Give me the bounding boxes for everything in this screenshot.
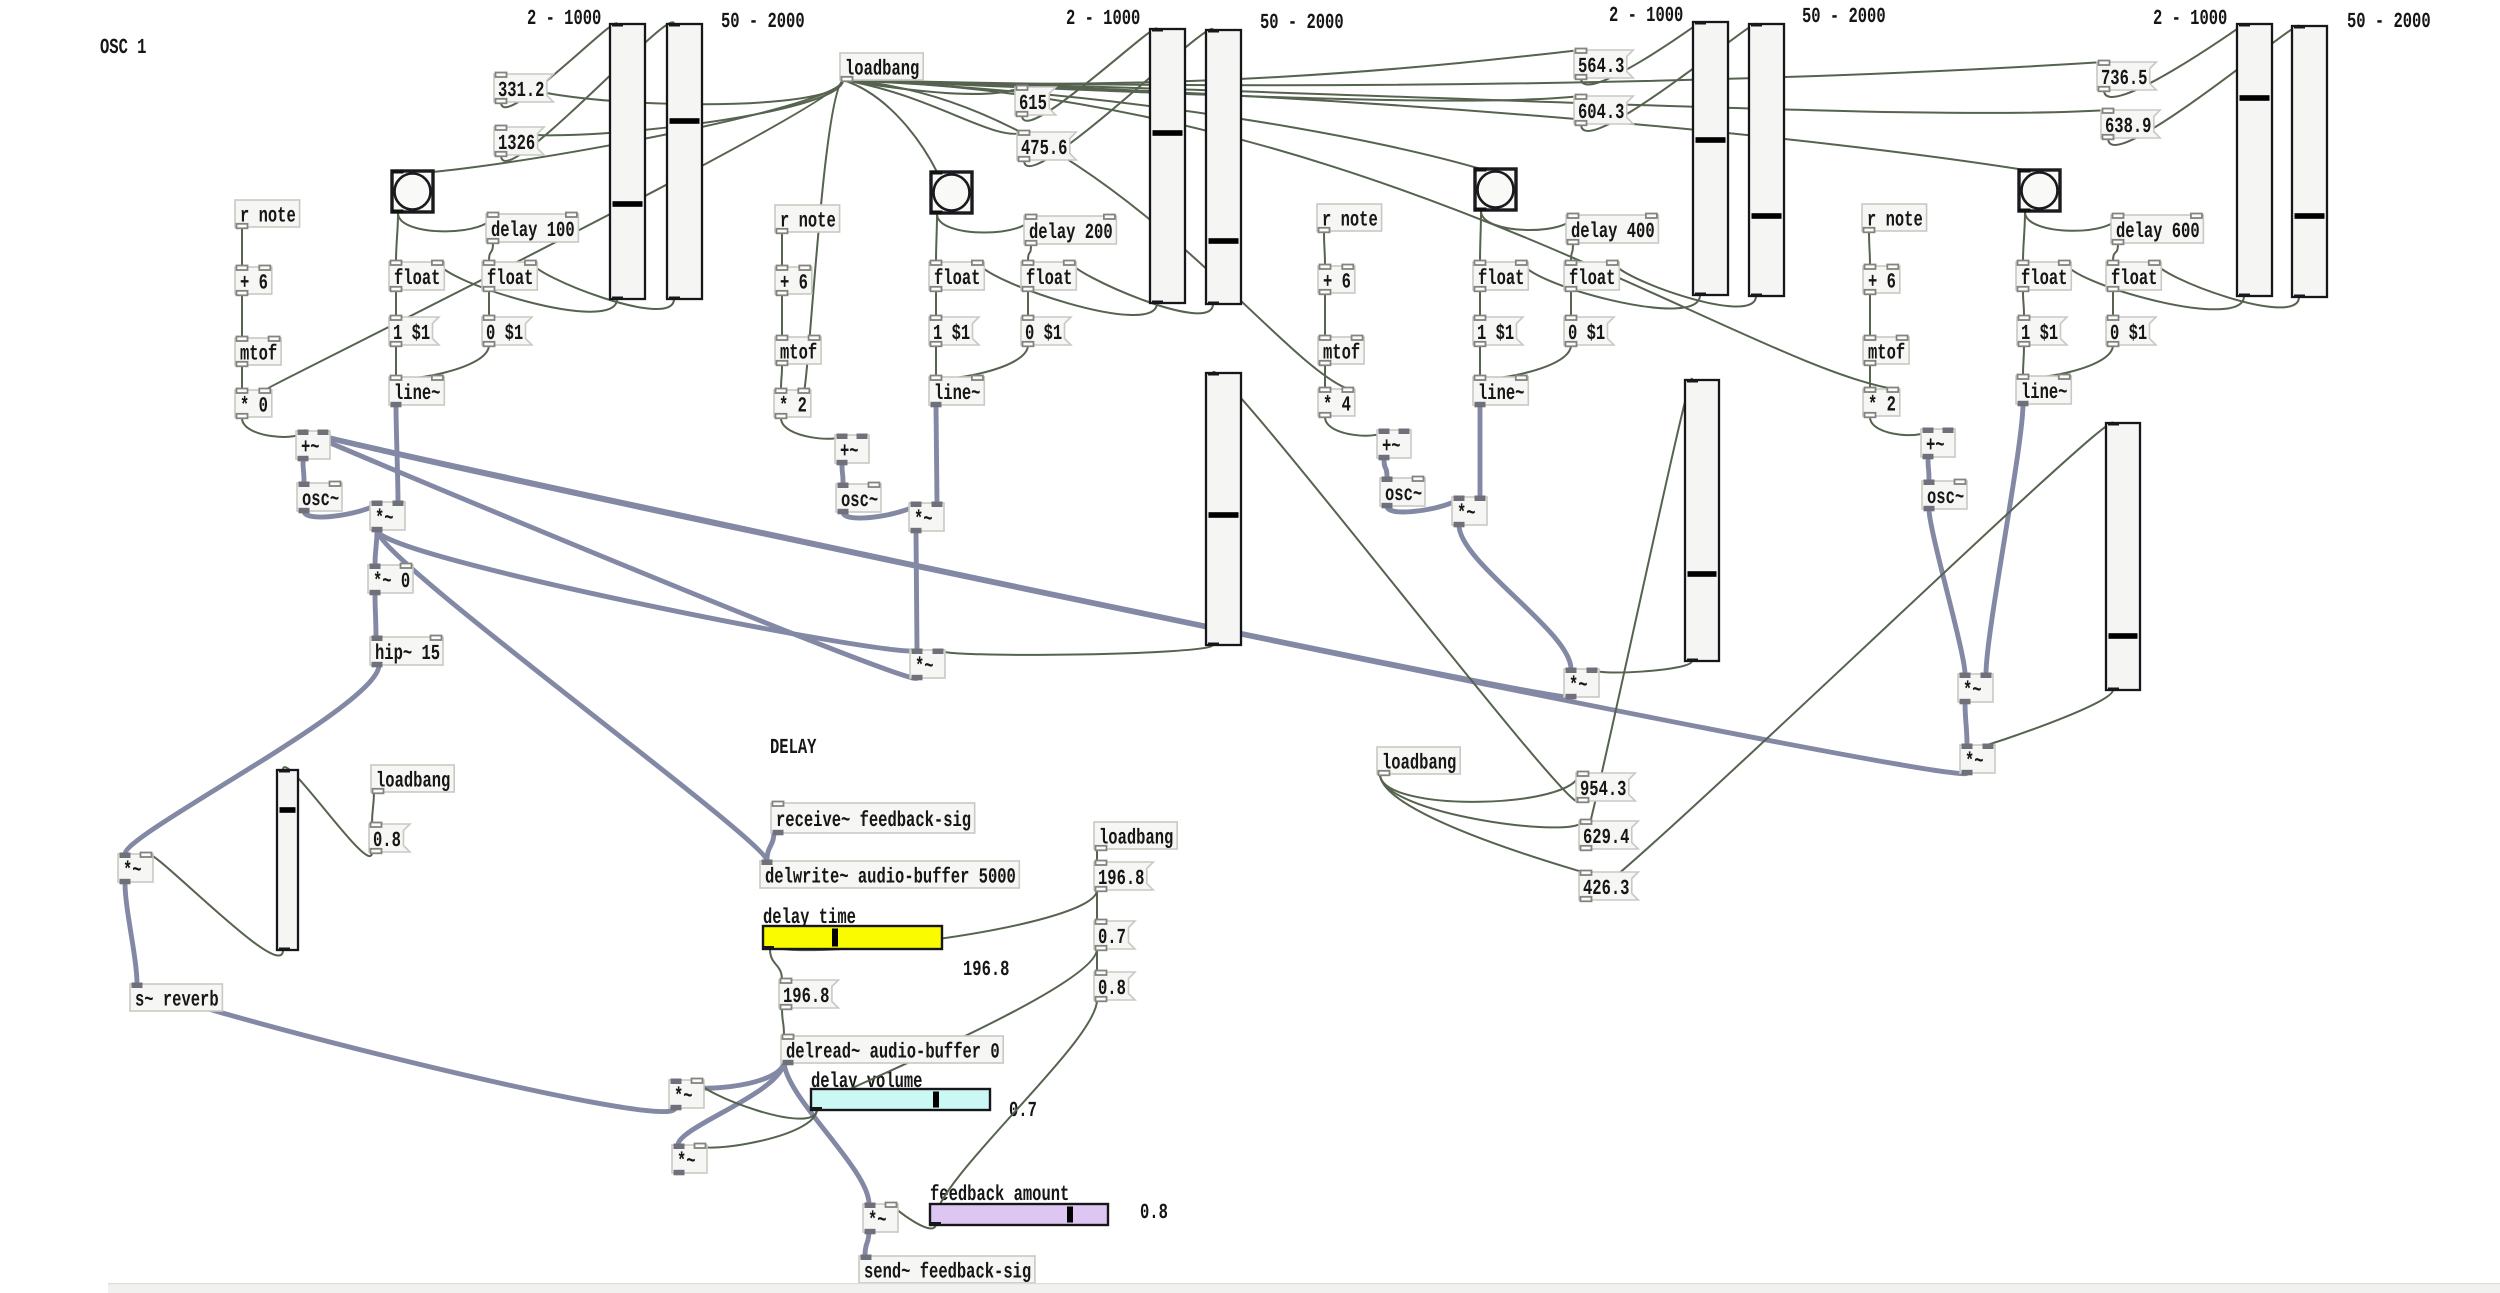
wire loadbang2 -> msg 629.4 <box>1380 774 1582 827</box>
comment 50 - 2000 (osc4) <box>2347 10 2431 34</box>
svg-text:delay 400: delay 400 <box>1571 220 1655 244</box>
wire msg 954.3 -> amp slider osc2 <box>1213 372 1579 802</box>
svg-text:0 $1: 0 $1 <box>1025 322 1062 346</box>
vslider volume (osc1) <box>277 770 298 951</box>
wire 736.5 -> slider1 (osc4) <box>2104 24 2244 97</box>
vslider amplitude (osc3) <box>1685 380 1719 662</box>
svg-text:0.8: 0.8 <box>1098 977 1126 1001</box>
wire loadbang -> msg 564.3 <box>843 50 1581 84</box>
object +~ (osc2) <box>835 434 869 466</box>
wire float -> 0 $1 (osc1) <box>488 290 490 317</box>
svg-text:0 $1: 0 $1 <box>2110 322 2147 346</box>
message 1 $1 (osc2) <box>929 316 979 347</box>
wire loadbang3 -> msg 0.8 (osc1) <box>372 791 374 824</box>
svg-text:1 $1: 1 $1 <box>1477 322 1514 346</box>
wire delread~ -> *~ C <box>784 1061 869 1204</box>
comment OSC 1 <box>100 36 146 60</box>
wire bang -> delay 600 (osc4) <box>2025 212 2118 231</box>
message 0.8 (delay right) <box>1094 971 1135 1002</box>
wire hip~ 15 -> *~ final <box>125 665 379 854</box>
object osc~ (osc4) <box>1922 480 1967 512</box>
message 426.3 <box>1579 871 1638 902</box>
object * 0 (osc1) <box>235 389 272 419</box>
object + 6 (osc4) <box>1863 265 1900 295</box>
message 638.9 (osc4) <box>2101 109 2160 140</box>
object *~ B (delay aux) <box>672 1144 707 1176</box>
svg-text:*~: *~ <box>375 507 394 531</box>
object * 2 (osc4) <box>1863 388 1900 418</box>
comment 50 - 2000 (osc2) <box>1260 11 1344 35</box>
svg-text:+~: +~ <box>1382 435 1401 459</box>
wire loadbang2 -> msg 426.3 <box>1380 774 1582 872</box>
svg-text:delay 200: delay 200 <box>1029 221 1113 245</box>
wire msg 196.8 -> msg 0.7 chain <box>1096 890 1098 921</box>
wire 1326 -> slider2 (osc1) <box>501 22 674 161</box>
wire mtof -> * 2 (osc2) <box>781 365 782 390</box>
object float right (osc1) <box>482 261 537 292</box>
message 0.8 (osc1 volume) <box>369 823 410 854</box>
svg-text:1326: 1326 <box>498 132 535 156</box>
wire r note -> + 6 (osc2) <box>781 233 783 267</box>
object line~ (osc3) <box>1473 376 1528 408</box>
svg-text:line~: line~ <box>394 382 440 406</box>
vslider amplitude (osc2) <box>1206 373 1241 646</box>
wire *~ osc3 -> *~2 osc3 <box>1459 525 1571 669</box>
message 0 $1 (osc1) <box>482 316 532 347</box>
object osc~ (osc2) <box>836 483 881 515</box>
svg-text:0 $1: 0 $1 <box>486 322 523 346</box>
wire delread~ -> *~ A <box>675 1061 784 1088</box>
wire msg 196.8 left -> delread~ <box>782 1008 784 1036</box>
object r note (osc1) <box>235 200 300 229</box>
svg-text:2 - 1000: 2 - 1000 <box>1609 4 1683 28</box>
message 604.3 (osc3) <box>1574 95 1633 126</box>
svg-text:1 $1: 1 $1 <box>2021 322 2058 346</box>
svg-text:send~ feedback-sig: send~ feedback-sig <box>864 1261 1031 1285</box>
wire osc~ -> *~ (osc3) <box>1387 497 1459 512</box>
svg-text:*~: *~ <box>868 1209 887 1233</box>
comment 2 - 1000 (osc2) <box>1066 7 1140 31</box>
wire 331.2 -> slider1 (osc1) <box>501 23 617 107</box>
vslider freq 2-1000 (osc1) <box>610 24 645 300</box>
wire * 2 -> +~ (osc4) <box>1870 417 1928 435</box>
object +~ (osc4) <box>1921 428 1955 460</box>
wire volume slider -> *~ final right <box>146 853 283 956</box>
svg-text:r note: r note <box>780 210 836 234</box>
object *~ second (osc4) <box>1960 744 1995 776</box>
comment 2 - 1000 (osc1) <box>527 7 601 31</box>
wire 475.6 -> slider2 (osc2) <box>1024 29 1213 166</box>
svg-text:0.7: 0.7 <box>1098 926 1126 950</box>
wire 615 -> slider1 (osc2) <box>1022 28 1157 120</box>
wire bang -> float left (osc1) <box>396 213 398 262</box>
wire bang -> delay 200 (osc2) <box>937 214 1031 233</box>
object *~ final (osc1) <box>118 853 153 885</box>
svg-text:r note: r note <box>1322 209 1378 233</box>
svg-text:delread~ audio-buffer 0: delread~ audio-buffer 0 <box>786 1041 1000 1065</box>
message 475.6 (osc2) <box>1017 131 1076 162</box>
svg-text:OSC 1: OSC 1 <box>100 36 146 60</box>
vslider cutoff 50-2000 (osc3) <box>1749 24 1784 297</box>
wire delay volume slider -> *~ A right <box>697 1080 817 1119</box>
message 0 $1 (osc2) <box>1021 316 1071 347</box>
object + 6 (osc1) <box>235 266 272 296</box>
svg-text:629.4: 629.4 <box>1583 826 1630 850</box>
object osc~ (osc1) <box>297 482 342 514</box>
svg-text:osc~: osc~ <box>302 488 339 512</box>
svg-text:loadbang: loadbang <box>376 770 450 794</box>
object *~ second (osc3) <box>1564 668 1599 700</box>
wire +~ -> osc~ (osc3) <box>1384 458 1387 478</box>
object + 6 (osc3) <box>1318 265 1355 295</box>
wire slider2 -> float right box right inlet (osc2) <box>1071 262 1214 313</box>
wire 0 $1 -> line~ (osc4) <box>2023 345 2113 378</box>
svg-text:331.2: 331.2 <box>498 79 544 103</box>
message 629.4 <box>1579 820 1638 851</box>
wire *~ 0 -> hip~ 15 <box>375 593 376 637</box>
wire * 2 -> +~ (osc2) <box>781 418 842 439</box>
svg-text:*~: *~ <box>674 1085 693 1109</box>
svg-text:426.3: 426.3 <box>1583 877 1629 901</box>
wire *~ osc4 -> *~2 osc4 <box>1965 702 1967 745</box>
loadbang (osc1 volume) <box>371 765 454 794</box>
object float left (osc1) <box>389 261 444 292</box>
hslider delay volume (cyan) <box>810 1089 990 1111</box>
message 331.2 (osc1) <box>494 73 553 104</box>
svg-text:float: float <box>2021 267 2067 291</box>
wire slider2 -> float right box right inlet (osc1) <box>532 262 675 309</box>
svg-text:*~: *~ <box>677 1150 696 1174</box>
svg-text:736.5: 736.5 <box>2101 67 2147 91</box>
svg-text:+~: +~ <box>301 436 320 460</box>
object hip~ 15 (osc1) <box>370 636 443 668</box>
message 0 $1 (osc4) <box>2106 316 2156 347</box>
object delay 200 (osc2) <box>1024 215 1116 246</box>
message 1 $1 (osc1) <box>389 316 439 347</box>
svg-text:mtof: mtof <box>1868 342 1905 366</box>
svg-text:* 4: * 4 <box>1323 394 1351 418</box>
svg-text:*~: *~ <box>914 508 933 532</box>
wire msg 426.3 -> amp slider osc4 <box>1582 423 2113 901</box>
object osc~ (osc3) <box>1380 477 1425 509</box>
svg-text:* 2: * 2 <box>779 395 807 419</box>
svg-text:mtof: mtof <box>240 343 277 367</box>
message 1 $1 (osc4) <box>2017 316 2067 347</box>
wire bang -> float left (osc3) <box>1480 211 1481 262</box>
object float left (osc4) <box>2016 261 2071 292</box>
bang (osc4) <box>2019 169 2061 213</box>
scrollbar strip (bottom) <box>108 1283 2500 1293</box>
object delay 400 (osc3) <box>1566 214 1658 245</box>
svg-text:+~: +~ <box>1926 434 1945 458</box>
wire 1 $1 -> line~ (osc1) <box>395 345 397 377</box>
wire +~ -> osc~ (osc2) <box>842 463 843 484</box>
svg-text:2 - 1000: 2 - 1000 <box>2153 7 2227 31</box>
svg-text:line~: line~ <box>934 382 980 406</box>
object *~ (osc1) <box>370 501 405 533</box>
svg-text:float: float <box>1569 267 1615 291</box>
wire loadbang -> msg 638.9 <box>843 80 2108 113</box>
svg-text:loadbang: loadbang <box>1382 752 1456 776</box>
svg-text:615: 615 <box>1019 92 1047 116</box>
svg-text:hip~ 15: hip~ 15 <box>375 642 440 666</box>
message 1 $1 (osc3) <box>1473 316 1523 347</box>
svg-text:loadbang: loadbang <box>1099 827 1173 851</box>
wire bang -> delay 100 (osc1) <box>398 213 493 231</box>
wire loadbang -> msg 736.5 <box>843 62 2104 85</box>
svg-text:+ 6: + 6 <box>240 272 268 296</box>
hslider delay time (yellow) <box>762 926 942 950</box>
message 954.3 <box>1576 772 1635 803</box>
svg-text:*~: *~ <box>123 859 142 883</box>
wire delay volume slider -> *~ B right <box>700 1109 817 1148</box>
svg-text:*~: *~ <box>1457 502 1476 526</box>
wire bang -> float left (osc4) <box>2023 212 2025 262</box>
wire loadbang -> bang (osc3) <box>843 80 1481 169</box>
svg-text:float: float <box>1478 267 1524 291</box>
svg-text:float: float <box>934 267 980 291</box>
message 736.5 (osc4) <box>2097 61 2156 92</box>
svg-text:196.8: 196.8 <box>1098 867 1144 891</box>
object + 6 (osc2) <box>775 266 812 296</box>
svg-text:float: float <box>394 267 440 291</box>
wire +~ -> osc~ (osc1) <box>303 459 304 483</box>
svg-text:line~: line~ <box>1478 382 1524 406</box>
wire loadbang -> msg 475.6 <box>843 80 1024 134</box>
svg-text:0.8: 0.8 <box>1140 1201 1168 1225</box>
svg-text:475.6: 475.6 <box>1021 137 1067 161</box>
loadbang (top) <box>840 53 923 82</box>
wire float -> 0 $1 (osc3) <box>1570 290 1572 317</box>
wire 1 $1 -> line~ (osc4) <box>2023 345 2024 376</box>
svg-text:954.3: 954.3 <box>1580 778 1626 802</box>
wire mtof -> * 4 (osc3) <box>1324 365 1326 389</box>
wire r note -> + 6 (osc4) <box>1869 232 1870 266</box>
object r note (osc4) <box>1862 204 1927 233</box>
svg-text:delwrite~ audio-buffer 5000: delwrite~ audio-buffer 5000 <box>765 866 1016 890</box>
object *~ second (osc2) <box>910 649 945 681</box>
svg-text:receive~ feedback-sig: receive~ feedback-sig <box>776 809 971 833</box>
object +~ (osc1) <box>296 430 330 462</box>
svg-text:+~: +~ <box>840 440 859 464</box>
wire r note -> + 6 (osc3) <box>1324 232 1325 266</box>
vslider freq 2-1000 (osc4) <box>2237 24 2272 297</box>
svg-text:line~: line~ <box>2021 381 2067 405</box>
wire amp slider osc3 -> *~2 right (osc3) <box>1592 661 1692 672</box>
wire line~ -> *~ right (osc4) <box>1986 404 2023 674</box>
loadbang (delay) <box>1094 822 1177 851</box>
vslider freq 2-1000 (osc3) <box>1693 22 1728 296</box>
wire *~2 osc4 -> +~ osc1 <box>303 431 1967 774</box>
object r note (osc2) <box>775 205 840 234</box>
wire float -> 1 $1 (osc3) <box>1479 290 1481 317</box>
object line~ (osc1) <box>389 376 444 408</box>
svg-text:2 - 1000: 2 - 1000 <box>1066 7 1140 31</box>
wire loadbang -> bang (osc2) <box>843 80 937 172</box>
wire *~ A -> s~ reverb <box>137 984 675 1112</box>
object *~ (osc4) <box>1958 673 1993 705</box>
wire delay 200 -> float right (osc2) <box>1028 244 1031 262</box>
comment 50 - 2000 (osc3) <box>1802 5 1886 29</box>
wire delay time slider -> msg 196.8 left <box>770 949 782 980</box>
svg-text:*~ 0: *~ 0 <box>373 570 410 594</box>
comment 196.8 <box>963 958 1009 982</box>
object * 4 (osc3) <box>1318 388 1355 418</box>
svg-text:s~ reverb: s~ reverb <box>135 989 219 1013</box>
wire bang -> delay 400 (osc3) <box>1481 211 1573 230</box>
wire loadbang2 -> msg 954.3 <box>1380 773 1579 802</box>
wire delay 100 -> float right (osc1) <box>489 242 493 262</box>
svg-text:r note: r note <box>240 205 296 229</box>
wire *~ osc1 -> delwrite~ <box>377 530 767 861</box>
object r note (osc3) <box>1317 204 1382 233</box>
wire slider1 -> float left box right inlet (osc2) <box>979 262 1158 315</box>
wire msg 196.8 -> delay time slider <box>768 890 1097 950</box>
wire loadbang -> msg 604.3 <box>843 80 1581 101</box>
svg-text:+ 6: + 6 <box>1868 271 1896 295</box>
bang (osc1) <box>392 170 434 214</box>
wire bang -> float left (osc2) <box>936 214 937 262</box>
wire mtof -> * 2 (osc4) <box>1869 365 1871 389</box>
vslider cutoff 50-2000 (osc4) <box>2292 26 2327 298</box>
wire loadbang -> * 2 right inlet (osc4) <box>843 80 1893 389</box>
comment delay time <box>763 906 856 930</box>
svg-text:mtof: mtof <box>1323 342 1360 366</box>
svg-text:196.8: 196.8 <box>963 958 1009 982</box>
wire msg 0.8 -> feedback amount slider <box>934 1000 1097 1222</box>
wire msg 0.7 -> msg 0.8 chain <box>1096 949 1098 972</box>
object mtof (osc2) <box>775 336 821 366</box>
wire feedback slider -> *~ C right <box>891 1204 936 1228</box>
svg-text:0 $1: 0 $1 <box>1568 322 1605 346</box>
wire slider1 -> float left box right inlet (osc4) <box>2066 262 2245 309</box>
svg-text:DELAY: DELAY <box>770 736 817 760</box>
wire + 6 -> mtof (osc4) <box>1869 294 1871 337</box>
svg-text:50 - 2000: 50 - 2000 <box>2347 10 2431 34</box>
wire slider2 -> float right box right inlet (osc4) <box>2156 262 2300 307</box>
wire line~ -> *~ right (osc1) <box>396 405 398 502</box>
svg-text:*~: *~ <box>1963 679 1982 703</box>
wire loadbang -> * 0 right inlet (osc1) <box>265 80 843 390</box>
message 1326 (osc1) <box>494 126 544 157</box>
svg-text:*~: *~ <box>915 655 934 679</box>
wire *~ final -> s~ reverb <box>125 883 137 984</box>
svg-text:delay 600: delay 600 <box>2116 220 2200 244</box>
svg-text:1 $1: 1 $1 <box>393 322 430 346</box>
object delay 600 (osc4) <box>2111 214 2203 245</box>
svg-text:mtof: mtof <box>780 342 817 366</box>
wire delay 400 -> float right (osc3) <box>1571 243 1573 262</box>
comment DELAY <box>770 736 817 760</box>
wire float -> 0 $1 (osc2) <box>1027 290 1029 317</box>
wire r note -> + 6 (osc1) <box>241 228 243 267</box>
bang (osc3) <box>1475 168 1517 212</box>
svg-text:196.8: 196.8 <box>783 985 829 1009</box>
wire line~ -> *~ right (osc3) <box>1478 405 1483 497</box>
wire delread~ -> *~ B <box>678 1061 784 1145</box>
svg-text:2 - 1000: 2 - 1000 <box>527 7 601 31</box>
svg-text:+ 6: + 6 <box>780 272 808 296</box>
wire loadbang -> * 4 right inlet (osc3) <box>843 80 1348 389</box>
comment 50 - 2000 (osc1) <box>721 10 805 34</box>
svg-text:r note: r note <box>1867 209 1923 233</box>
wire 0 $1 -> line~ (osc2) <box>936 345 1028 379</box>
wire msg 0.7 -> delay volume slider <box>814 949 1097 1107</box>
svg-text:+ 6: + 6 <box>1323 271 1351 295</box>
wire + 6 -> mtof (osc1) <box>241 295 243 338</box>
vslider cutoff 50-2000 (osc1) <box>667 24 702 300</box>
wire *~2 osc2 -> +~ osc1 <box>303 431 917 678</box>
svg-text:0.8: 0.8 <box>373 829 401 853</box>
wire mtof -> * 0 (osc1) <box>241 366 243 390</box>
svg-text:float: float <box>2111 267 2157 291</box>
svg-text:osc~: osc~ <box>1385 483 1422 507</box>
svg-text:float: float <box>1026 267 1072 291</box>
wire receive~ -> delwrite~ <box>767 831 774 861</box>
svg-text:float: float <box>487 267 533 291</box>
comment 2 - 1000 (osc4) <box>2153 7 2227 31</box>
object float left (osc3) <box>1473 261 1528 292</box>
wire *~ C -> send~ <box>865 1230 869 1256</box>
comment feedback amount <box>930 1183 1069 1207</box>
loadbang (amp sliders) <box>1377 747 1460 776</box>
wire 638.9 -> slider2 (osc4) <box>2108 26 2299 145</box>
message 615 (osc2) <box>1015 86 1056 117</box>
wire slider2 -> float right box right inlet (osc3) <box>1614 262 1757 307</box>
wire slider1 -> float left box right inlet (osc3) <box>1523 262 1701 308</box>
object mtof (osc1) <box>235 337 281 367</box>
wire + 6 -> mtof (osc2) <box>781 295 783 337</box>
wire float -> 0 $1 (osc4) <box>2112 290 2114 317</box>
wire +~ -> osc~ (osc4) <box>1928 457 1929 481</box>
wire 564.3 -> slider1 (osc3) <box>1581 22 1700 85</box>
wire * 0 -> +~ (osc1) <box>242 418 303 437</box>
object float right (osc3) <box>1564 261 1619 292</box>
wire osc~ -> *~ (osc4) <box>1929 509 1965 674</box>
object delread~ audio-buffer 0 <box>781 1035 1003 1066</box>
svg-text:* 2: * 2 <box>1868 394 1896 418</box>
wire *~ osc1 -> *~2 osc2 <box>377 530 917 651</box>
svg-text:50 - 2000: 50 - 2000 <box>721 10 805 34</box>
svg-text:*~: *~ <box>1569 674 1588 698</box>
wire amp slider osc4 -> *~2 right (osc4) <box>1986 690 2113 745</box>
object receive~ feedback-sig <box>771 802 975 836</box>
vslider amplitude (osc4) <box>2106 423 2140 691</box>
wire slider1 -> float left box right inlet (osc1) <box>439 262 618 312</box>
svg-text:* 0: * 0 <box>240 395 268 419</box>
object delay 100 (osc1) <box>486 213 578 244</box>
wire 1 $1 -> line~ (osc2) <box>935 345 937 377</box>
comment 0.7 <box>1009 1099 1037 1123</box>
wire 0 $1 -> line~ (osc3) <box>1480 345 1571 379</box>
svg-text:osc~: osc~ <box>841 489 878 513</box>
object *~ (osc2) <box>909 502 944 534</box>
svg-text:604.3: 604.3 <box>1578 101 1624 125</box>
wire *~2 osc3 -> +~ osc1 <box>303 431 1571 697</box>
svg-text:*~: *~ <box>1965 750 1984 774</box>
object *~ C (feedback) <box>863 1203 898 1235</box>
svg-text:loadbang: loadbang <box>845 58 919 82</box>
vslider cutoff 50-2000 (osc2) <box>1206 30 1241 305</box>
wire float -> 1 $1 (osc2) <box>935 290 937 317</box>
object line~ (osc2) <box>929 376 984 408</box>
comment 2 - 1000 (osc3) <box>1609 4 1683 28</box>
message 0.7 (delay right) <box>1094 920 1135 951</box>
wire loadbang -> msg 1326 <box>501 80 843 135</box>
object float right (osc2) <box>1021 261 1076 292</box>
object * 2 (osc2) <box>774 389 811 419</box>
svg-text:1 $1: 1 $1 <box>933 322 970 346</box>
